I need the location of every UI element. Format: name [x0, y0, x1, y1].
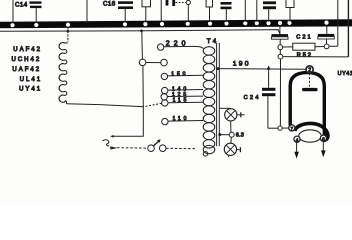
mid tap 6.3V: [218, 121, 244, 144]
capacitor C16: [103, 0, 133, 22]
svg-text:2: 2: [308, 68, 311, 74]
under-bus rail: [0, 30, 280, 34]
wire top-left: [12, 0, 14, 23]
tap 115: [162, 97, 203, 106]
junction C24: [268, 66, 270, 72]
resistor R52: [283, 43, 325, 58]
190 V wire to rectifier anode: [216, 68, 306, 71]
capacitor (vertical plates, top edge): [166, 0, 191, 22]
wire right B: [347, 0, 349, 57]
pin 7: [289, 125, 295, 131]
wire: [160, 0, 162, 22]
mains switch: [148, 145, 155, 152]
pin 8: [320, 135, 326, 141]
mains lead L-wire: [112, 107, 143, 136]
svg-text:220: 220: [166, 41, 190, 48]
svg-text:C14: C14: [15, 2, 28, 9]
heater wire to 115 tap: [67, 104, 144, 107]
svg-text:UAF42: UAF42: [13, 47, 42, 53]
svg-text:C16: C16: [103, 0, 116, 7]
chassis bus bar: [0, 19, 352, 28]
svg-text:7: 7: [291, 126, 294, 131]
rectifier UY41 envelope: [290, 73, 324, 137]
svg-text:UY41: UY41: [338, 71, 352, 77]
wire right A: [337, 0, 339, 46]
heater chain (series filaments meander): [59, 43, 68, 104]
heater output arrows: [294, 141, 325, 158]
svg-text:6.3: 6.3: [236, 132, 244, 138]
C21 right section: [318, 26, 335, 44]
junction heater/rail: [67, 30, 70, 33]
lower rail to B+: [283, 56, 349, 58]
tap 110: [162, 116, 203, 125]
svg-text:UAF42: UAF42: [12, 67, 41, 73]
wire to switch: [117, 147, 148, 149]
tap 220: [157, 41, 203, 51]
resistor (top): [206, 0, 212, 22]
filament arc: [295, 123, 328, 140]
anode plate: [302, 88, 318, 91]
svg-text:R52: R52: [297, 53, 313, 59]
dial lamp 1: [225, 108, 245, 121]
svg-text:C21: C21: [296, 35, 313, 41]
wire: [86, 0, 88, 22]
wire: [244, 0, 246, 22]
autotransformer T4: [203, 38, 219, 156]
svg-text:4: 4: [296, 137, 299, 142]
wire: [256, 0, 258, 22]
cathode ellipse: [299, 130, 322, 142]
capacitor C14: [15, 1, 42, 22]
svg-text:150: 150: [171, 72, 188, 78]
resistor (top, cut off): [142, 0, 151, 22]
junction selector/rail: [140, 30, 143, 33]
svg-text:115: 115: [173, 97, 190, 103]
mains cord squiggle: [103, 140, 110, 146]
anode pin 2 badge: [306, 66, 313, 73]
C21 left section: [272, 27, 289, 45]
filament junction: [268, 127, 278, 129]
capacitor (top): [221, 2, 232, 22]
svg-text:8: 8: [322, 136, 325, 141]
tube list labels: [12, 47, 43, 92]
svg-text:110: 110: [173, 116, 190, 122]
dial lamp top tap: [220, 107, 231, 109]
core: [216, 43, 218, 146]
dial lamp 2: [224, 143, 240, 157]
svg-text:C24: C24: [244, 95, 261, 101]
resistor (top): [286, 0, 294, 22]
junction circles on anode rail: [278, 45, 283, 50]
capacitor C24: [244, 71, 276, 128]
tap 140: [162, 86, 204, 93]
svg-text:UCH42: UCH42: [12, 57, 42, 63]
svg-text:UL41: UL41: [20, 77, 42, 83]
tap 150: [161, 72, 203, 80]
svg-text:190: 190: [233, 60, 251, 67]
voltage selector arm: [141, 31, 144, 59]
heater-string drop from bus: [67, 27, 69, 42]
bottom terminal: [203, 152, 208, 157]
svg-text:UY41: UY41: [19, 87, 42, 93]
node dots on bus: [10, 21, 328, 28]
pin 4: [294, 136, 300, 142]
tap 125: [161, 92, 203, 100]
capacitor (top): [263, 1, 276, 22]
